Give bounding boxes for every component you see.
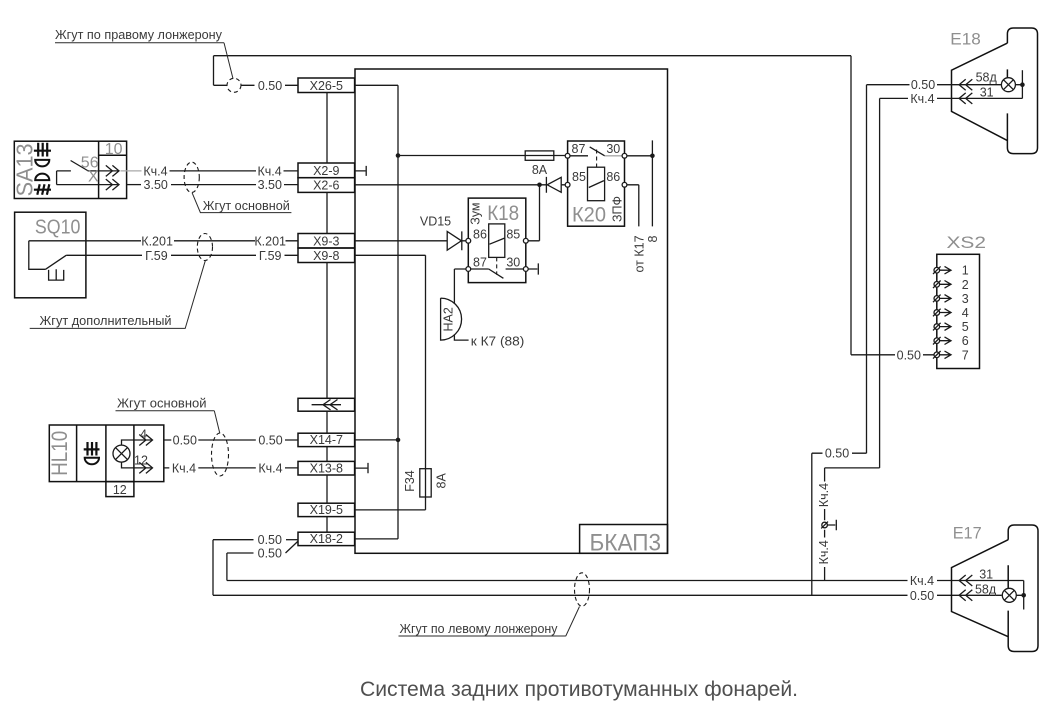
svg-text:8А: 8А bbox=[532, 163, 548, 177]
svg-text:30: 30 bbox=[506, 255, 520, 269]
svg-text:от К17: от К17 bbox=[633, 235, 647, 272]
svg-text:Жгут по левому лонжерону: Жгут по левому лонжерону bbox=[400, 622, 559, 636]
svg-text:К.201: К.201 bbox=[254, 234, 286, 248]
svg-text:0.50: 0.50 bbox=[258, 79, 282, 93]
svg-text:85: 85 bbox=[506, 228, 520, 242]
svg-text:ЗПФ: ЗПФ bbox=[611, 196, 625, 222]
svg-text:F34: F34 bbox=[403, 470, 417, 492]
svg-text:Х14-7: Х14-7 bbox=[310, 433, 343, 447]
svg-text:К20: К20 bbox=[572, 204, 606, 227]
svg-text:4: 4 bbox=[962, 306, 969, 320]
svg-text:Кч.4: Кч.4 bbox=[257, 164, 281, 178]
svg-text:Кч.4: Кч.4 bbox=[817, 483, 831, 507]
svg-text:5: 5 bbox=[962, 320, 969, 334]
svg-text:12: 12 bbox=[134, 453, 148, 467]
svg-text:30: 30 bbox=[606, 142, 620, 156]
svg-text:87: 87 bbox=[473, 255, 487, 269]
svg-text:HL10: HL10 bbox=[47, 431, 72, 476]
svg-text:Х2-6: Х2-6 bbox=[313, 179, 339, 193]
svg-text:Г.59: Г.59 bbox=[259, 249, 282, 263]
svg-text:86: 86 bbox=[606, 170, 620, 184]
svg-text:0.50: 0.50 bbox=[911, 78, 935, 92]
svg-text:Х2-9: Х2-9 bbox=[313, 164, 339, 178]
svg-text:85: 85 bbox=[572, 170, 586, 184]
svg-text:87: 87 bbox=[572, 142, 586, 156]
svg-text:0.50: 0.50 bbox=[897, 348, 921, 362]
svg-text:58д: 58д bbox=[975, 583, 997, 597]
svg-text:Х9-3: Х9-3 bbox=[313, 234, 339, 248]
svg-text:0.50: 0.50 bbox=[173, 433, 197, 447]
svg-text:Х26-5: Х26-5 bbox=[310, 79, 343, 93]
svg-text:0.50: 0.50 bbox=[910, 589, 934, 603]
svg-text:Жгут основной: Жгут основной bbox=[203, 199, 290, 213]
svg-text:E18: E18 bbox=[950, 30, 981, 49]
svg-text:0.50: 0.50 bbox=[825, 447, 849, 461]
svg-text:E17: E17 bbox=[953, 524, 982, 543]
svg-text:10: 10 bbox=[105, 141, 123, 158]
svg-text:86: 86 bbox=[473, 228, 487, 242]
svg-text:12: 12 bbox=[113, 483, 127, 497]
svg-text:Жгут дополнительный: Жгут дополнительный bbox=[40, 314, 172, 328]
svg-text:Система задних противотуманных: Система задних противотуманных фонарей. bbox=[360, 678, 798, 701]
svg-text:31: 31 bbox=[979, 567, 993, 581]
svg-text:К18: К18 bbox=[487, 202, 519, 225]
svg-text:6: 6 bbox=[962, 334, 969, 348]
svg-text:Кч.4: Кч.4 bbox=[172, 461, 196, 475]
svg-text:XS2: XS2 bbox=[947, 233, 987, 252]
svg-text:Х9-8: Х9-8 bbox=[313, 249, 339, 263]
svg-text:8: 8 bbox=[646, 235, 660, 242]
svg-text:Г.59: Г.59 bbox=[145, 249, 168, 263]
svg-text:7: 7 bbox=[962, 348, 969, 362]
svg-text:58д: 58д bbox=[976, 71, 998, 85]
svg-text:SA13: SA13 bbox=[12, 143, 38, 196]
svg-text:3.50: 3.50 bbox=[258, 178, 282, 192]
svg-text:БКАП3: БКАП3 bbox=[590, 530, 662, 557]
svg-text:К.201: К.201 bbox=[141, 234, 173, 248]
svg-text:0.50: 0.50 bbox=[258, 433, 282, 447]
svg-text:8А: 8А bbox=[435, 472, 449, 488]
svg-text:3.50: 3.50 bbox=[144, 178, 168, 192]
svg-text:X: X bbox=[88, 169, 99, 186]
svg-text:Х18-2: Х18-2 bbox=[310, 532, 343, 546]
svg-text:2: 2 bbox=[962, 278, 969, 292]
svg-text:0.50: 0.50 bbox=[258, 533, 282, 547]
svg-text:31: 31 bbox=[980, 85, 994, 99]
svg-text:Х19-5: Х19-5 bbox=[310, 503, 343, 517]
svg-text:Х13-8: Х13-8 bbox=[310, 462, 343, 476]
svg-text:Жгут по правому лонжерону: Жгут по правому лонжерону bbox=[55, 28, 223, 42]
svg-text:Кч.4: Кч.4 bbox=[258, 461, 282, 475]
svg-text:Кч.4: Кч.4 bbox=[817, 540, 831, 564]
svg-text:SQ10: SQ10 bbox=[35, 217, 81, 239]
svg-text:4: 4 bbox=[140, 428, 147, 442]
svg-text:к К7 (88): к К7 (88) bbox=[471, 334, 525, 348]
svg-text:Кч.4: Кч.4 bbox=[910, 574, 934, 588]
svg-text:Жгут основной: Жгут основной bbox=[117, 397, 207, 411]
svg-text:VD15: VD15 bbox=[420, 215, 451, 229]
svg-text:НА2: НА2 bbox=[442, 307, 456, 331]
svg-text:3: 3 bbox=[962, 292, 969, 306]
svg-text:0.50: 0.50 bbox=[258, 547, 282, 561]
svg-text:Кч.4: Кч.4 bbox=[143, 164, 167, 178]
svg-text:Зум: Зум bbox=[468, 202, 482, 224]
svg-text:1: 1 bbox=[962, 264, 969, 278]
svg-text:Кч.4: Кч.4 bbox=[910, 92, 934, 106]
